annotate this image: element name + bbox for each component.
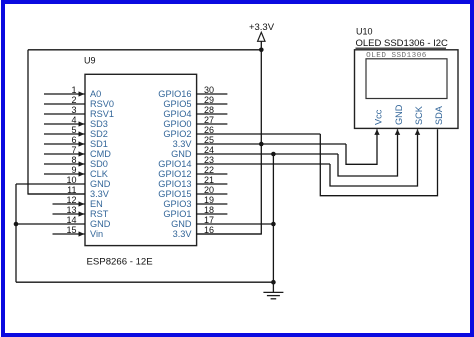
wire pin 28 stub	[197, 113, 228, 115]
wire SCK net (GPIO14 to OLED SCK)	[330, 129, 418, 186]
svg-text:SCK: SCK	[414, 105, 424, 125]
node +3.3V rail junction	[259, 48, 264, 53]
svg-text:3.3V: 3.3V	[90, 189, 110, 199]
svg-text:SD2: SD2	[90, 129, 108, 139]
svg-text:26: 26	[204, 125, 214, 135]
svg-text:GND: GND	[90, 219, 111, 229]
svg-text:3.3V: 3.3V	[173, 139, 193, 149]
wire GND bottom rail	[16, 281, 273, 283]
node pin14 GND junction	[14, 222, 19, 227]
wire pin 1 stub	[44, 93, 85, 95]
svg-text:1: 1	[71, 85, 76, 95]
wire pin 15 stub	[53, 233, 86, 235]
svg-text:23: 23	[204, 155, 214, 165]
svg-text:15: 15	[66, 225, 76, 235]
wire pin 14 stub	[16, 223, 85, 225]
OLED pin arrow SCK	[415, 129, 420, 135]
svg-text:GND: GND	[171, 219, 192, 229]
svg-text:27: 27	[204, 115, 214, 125]
ground	[263, 282, 283, 299]
IC U9 body (ESP8266-12E)	[85, 74, 197, 245]
svg-text:22: 22	[204, 165, 214, 175]
wire left GND vertical	[15, 184, 17, 282]
wire left 3.3V drop to pin 11	[28, 50, 85, 194]
svg-text:+3.3V: +3.3V	[249, 22, 275, 33]
wire pin 25 stub	[197, 143, 346, 145]
svg-text:GND: GND	[394, 104, 404, 125]
wire pin 11 stub	[28, 193, 85, 195]
wire Vcc net (3.3V to OLED Vcc)	[346, 129, 377, 164]
node pin24 GND junction	[271, 152, 276, 157]
svg-text:30: 30	[204, 85, 214, 95]
OLED pin arrow GND	[395, 129, 400, 135]
svg-text:14: 14	[66, 215, 76, 225]
svg-text:28: 28	[204, 105, 214, 115]
node GND rail junction	[271, 280, 276, 285]
wire pin 27 stub	[197, 123, 228, 125]
svg-text:A0: A0	[90, 89, 101, 99]
wire pin 23 stub	[197, 163, 330, 165]
wire pin 20 stub	[197, 193, 228, 195]
svg-text:OLED SSD1306 - I2C: OLED SSD1306 - I2C	[356, 38, 449, 49]
wire pin 30 stub	[197, 93, 228, 95]
svg-text:GPIO12: GPIO12	[158, 169, 191, 179]
svg-text:GPIO0: GPIO0	[163, 119, 191, 129]
svg-text:Vin: Vin	[90, 229, 103, 239]
svg-text:RST: RST	[90, 209, 109, 219]
wire pin 16 stub	[197, 233, 262, 235]
svg-text:CMD: CMD	[90, 149, 111, 159]
wire pin 8 stub	[44, 163, 85, 165]
svg-text:SD1: SD1	[90, 139, 108, 149]
svg-text:GPIO1: GPIO1	[163, 209, 191, 219]
OLED pin arrow Vcc	[374, 129, 379, 135]
svg-text:17: 17	[204, 215, 214, 225]
svg-text:29: 29	[204, 95, 214, 105]
node pin25 3.3V junction	[259, 142, 264, 147]
wire pin 3 stub	[44, 113, 85, 115]
svg-text:9: 9	[71, 165, 76, 175]
svg-text:11: 11	[67, 185, 76, 195]
wire pin 2 stub	[44, 103, 85, 105]
wire pin 13 stub	[53, 213, 86, 215]
svg-text:3.3V: 3.3V	[173, 229, 193, 239]
wire pin 6 stub	[44, 143, 85, 145]
svg-text:GPIO16: GPIO16	[158, 89, 191, 99]
wire pin 22 stub	[197, 173, 228, 175]
svg-text:EN: EN	[90, 199, 103, 209]
svg-text:U9: U9	[84, 56, 96, 66]
wire pin 17 stub	[197, 223, 274, 225]
wire pin 4 stub	[44, 123, 85, 125]
svg-text:SD3: SD3	[90, 119, 108, 129]
svg-text:12: 12	[66, 195, 76, 205]
OLED U10 body	[355, 50, 459, 129]
wire pin 29 stub	[197, 103, 228, 105]
power +3.3V symbol triangle	[258, 32, 265, 41]
svg-text:10: 10	[66, 175, 76, 185]
U10 value underline	[356, 47, 447, 49]
wire pin 24 stub	[197, 153, 338, 155]
svg-text:U10: U10	[356, 26, 373, 36]
svg-text:13: 13	[66, 205, 76, 215]
svg-text:GPIO5: GPIO5	[163, 99, 191, 109]
OLED screen rectangle	[366, 59, 447, 99]
svg-text:Vcc: Vcc	[374, 109, 384, 125]
svg-text:25: 25	[204, 135, 214, 145]
svg-text:GND: GND	[171, 149, 192, 159]
svg-text:GPIO14: GPIO14	[158, 159, 191, 169]
svg-text:5: 5	[71, 125, 76, 135]
wire pin 19 stub	[197, 203, 228, 205]
svg-text:6: 6	[71, 135, 76, 145]
svg-text:24: 24	[204, 145, 214, 155]
svg-text:3: 3	[71, 105, 76, 115]
svg-text:20: 20	[204, 185, 214, 195]
svg-text:GPIO4: GPIO4	[163, 109, 191, 119]
wire GND net (to OLED GND)	[338, 129, 398, 176]
svg-text:GPIO13: GPIO13	[158, 179, 191, 189]
svg-text:16: 16	[204, 225, 214, 235]
svg-text:2: 2	[71, 95, 76, 105]
wire pin 18 stub	[197, 213, 228, 215]
svg-text:RSV1: RSV1	[90, 109, 114, 119]
svg-text:GPIO2: GPIO2	[163, 129, 191, 139]
svg-text:8: 8	[71, 155, 76, 165]
svg-text:GND: GND	[90, 179, 111, 189]
svg-text:ESP8266 - 12E: ESP8266 - 12E	[87, 257, 153, 268]
svg-text:18: 18	[204, 205, 214, 215]
wire pin 5 stub	[44, 133, 85, 135]
wire +3.3V vertical to pin16 corner	[197, 41, 262, 234]
svg-text:SDA: SDA	[434, 105, 444, 125]
wire pin 26 stub	[197, 133, 321, 135]
svg-text:GPIO15: GPIO15	[158, 189, 191, 199]
svg-text:21: 21	[204, 175, 214, 185]
node pin17 GND junction	[271, 222, 276, 227]
svg-text:19: 19	[204, 195, 214, 205]
wire pin 9 stub	[44, 173, 85, 175]
svg-text:RSV0: RSV0	[90, 99, 114, 109]
wire SDA net (GPIO2 to OLED SDA)	[320, 129, 437, 196]
wire pin 12 stub	[53, 203, 86, 205]
wire pin 7 stub	[44, 153, 85, 155]
wire pin 21 stub	[197, 183, 228, 185]
wire GND vertical	[272, 154, 274, 282]
wire pin 10 stub	[16, 183, 85, 185]
svg-text:SD0: SD0	[90, 159, 108, 169]
svg-text:GPIO3: GPIO3	[163, 199, 191, 209]
svg-text:4: 4	[71, 115, 76, 125]
svg-text:7: 7	[71, 145, 76, 155]
svg-text:CLK: CLK	[90, 169, 109, 179]
wire +3.3V rail left	[28, 49, 261, 51]
